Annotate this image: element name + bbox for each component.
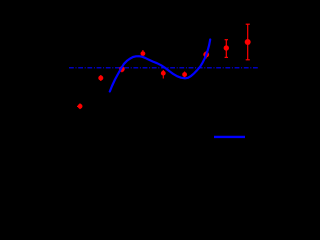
data point 7 marker [203, 52, 209, 58]
data point 7 error bar [205, 51, 207, 59]
data point 4 error bar [142, 50, 144, 57]
data point 2 error bar [100, 75, 102, 81]
data point 2 marker [98, 76, 103, 81]
data point 9 marker [245, 39, 251, 45]
data point 8 marker [224, 45, 229, 50]
data point 1 error bar [77, 103, 80, 109]
data point 4 marker [141, 51, 146, 56]
data point 9 error bar [246, 24, 250, 60]
data point 3 error bar [121, 66, 123, 72]
data point 1 marker [78, 104, 83, 109]
data point 6 marker [182, 72, 187, 77]
legend curve sample line [214, 136, 245, 138]
fit curve [110, 40, 210, 92]
data point 6 error bar [184, 72, 186, 78]
data point 8 error bar [225, 40, 228, 58]
horizontal dash-dot reference line [69, 67, 258, 69]
data point 5 marker [161, 71, 166, 76]
data point 5 error bar [162, 70, 164, 79]
data point 3 marker [119, 66, 125, 72]
